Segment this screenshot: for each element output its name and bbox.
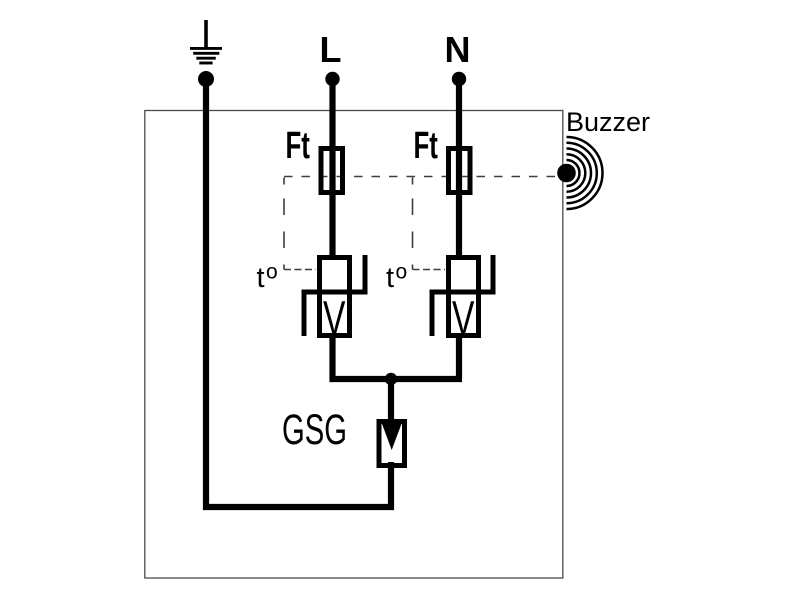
varistor V2 (N) body: [449, 258, 479, 336]
wire V2 bottom to bus: [456, 336, 462, 379]
node buzzer (dot on enclosure edge): [557, 164, 576, 183]
node PE (ground terminal dot): [198, 71, 214, 87]
svg-text:N: N: [445, 29, 471, 70]
thermal disconnect crossbar (V1): [302, 290, 368, 295]
wire L: from terminal through fuse to varistor: [329, 79, 335, 258]
svg-text:Ft: Ft: [286, 124, 311, 166]
label t-deg L: [257, 261, 278, 295]
wire PE: ground down, along bottom, up to GSG: [206, 79, 391, 507]
dashed link: buzzer signal line: [284, 176, 556, 178]
wire N: from terminal through fuse to varistor: [456, 79, 462, 258]
GSG arrow: [382, 423, 403, 451]
svg-text:Ft: Ft: [414, 124, 439, 166]
thermal disconnect bracket left (V2): [430, 292, 435, 336]
dashed stub to varistor V2: [413, 269, 446, 271]
thermal disconnect bracket left (V1): [302, 292, 307, 336]
junction node: [385, 373, 397, 385]
thermal disconnect bracket right (V1): [363, 255, 368, 292]
svg-text:GSG: GSG: [282, 405, 347, 453]
svg-text:o: o: [396, 261, 408, 284]
svg-text:o: o: [266, 261, 278, 284]
svg-text:Buzzer: Buzzer: [566, 107, 650, 137]
fuse Ft L: [321, 149, 343, 193]
wire V1 bottom to bus: [329, 336, 335, 379]
thermal disconnect crossbar (V2): [430, 290, 496, 295]
fuse Ft N: [449, 149, 471, 193]
svg-text:t: t: [386, 262, 394, 294]
svg-text:V: V: [452, 290, 475, 344]
node N (terminal dot): [452, 72, 466, 86]
label t-deg N: [386, 261, 407, 295]
dashed link: drop to t-point L: [283, 178, 285, 270]
buzzer arcs: [567, 137, 603, 209]
dashed stub to varistor V1: [284, 269, 316, 271]
svg-text:t: t: [257, 262, 265, 294]
node L (terminal dot): [325, 72, 339, 86]
thermal disconnect bracket right (V2): [491, 255, 496, 292]
dashed link: drop to t-point N: [412, 178, 414, 270]
svg-text:L: L: [320, 29, 342, 70]
enclosure box: [145, 111, 563, 579]
varistor V1 (L) body: [320, 258, 350, 336]
wire junction to GSG: [388, 379, 394, 423]
GSG arrester body: [379, 422, 405, 466]
wire bus joining varistors: [330, 376, 463, 382]
ground symbol: [190, 20, 222, 63]
